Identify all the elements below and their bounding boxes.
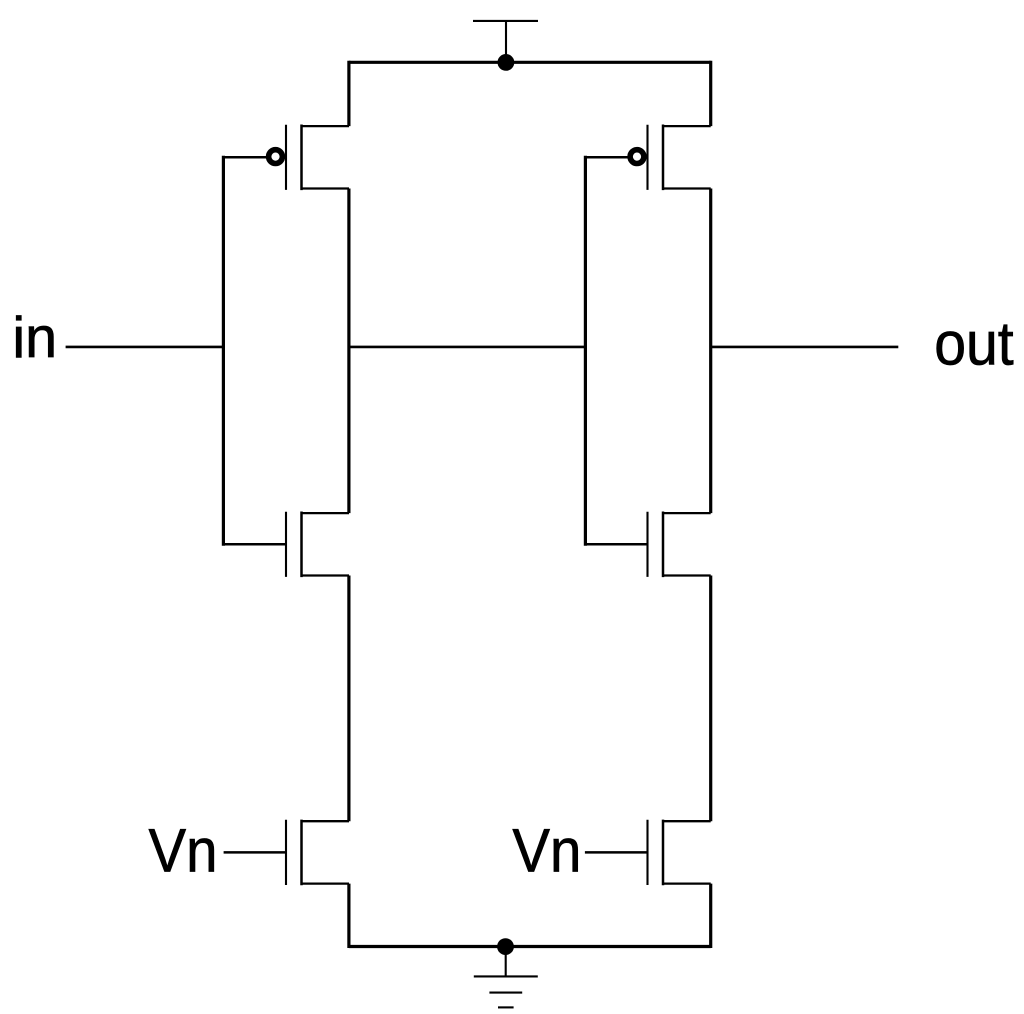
transistor M6 NMOS current-starve stage2 — [585, 820, 711, 886]
wire right column NMOS4 source to ground rail — [709, 884, 712, 948]
transistor M2 PMOS stage2 — [586, 125, 711, 191]
svg-text:Vn: Vn — [512, 817, 581, 885]
wire stage1 gate rail — [222, 156, 225, 546]
transistor M1 PMOS stage1 — [224, 125, 350, 191]
node junction ground dot — [497, 938, 514, 955]
wire stage1 output to stage2 gate — [349, 346, 586, 349]
wire stage2 gate rail — [584, 156, 587, 546]
transistor M3 NMOS stage1 — [224, 512, 350, 578]
wire in lead — [66, 346, 224, 349]
wire bottom rail ground net — [349, 945, 711, 948]
wire right column NMOS2 source to NMOS4 drain — [709, 576, 712, 822]
wire right column VDD to PMOS2 source — [709, 61, 712, 126]
wire out lead — [711, 346, 899, 349]
transistor M5 NMOS current-starve stage1 — [224, 820, 349, 886]
transistor M4 NMOS stage2 — [586, 512, 711, 578]
ground symbol — [474, 947, 538, 1008]
svg-text:out: out — [934, 309, 1014, 377]
svg-text:in: in — [12, 306, 57, 370]
wire left column NMOS1 source to NMOS3 drain — [347, 576, 350, 822]
wire right column PMOS2 drain to NMOS2 drain — [709, 189, 712, 514]
wire left column PMOS1 drain to NMOS1 drain — [347, 189, 350, 514]
node junction VDD dot — [498, 54, 515, 71]
wire left column VDD to PMOS1 source — [347, 61, 350, 126]
power VDD symbol — [473, 21, 538, 62]
wire top rail VDD net — [349, 61, 711, 64]
svg-text:Vn: Vn — [149, 817, 218, 885]
wire left column NMOS3 source to ground rail — [347, 884, 350, 948]
